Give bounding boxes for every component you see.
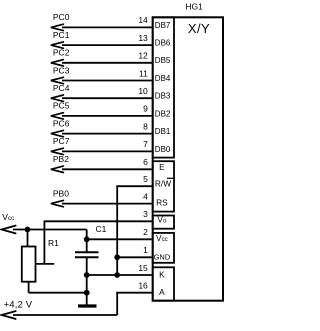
svg-text:K: K bbox=[159, 270, 165, 280]
svg-text:A: A bbox=[159, 287, 165, 297]
svg-text:14: 14 bbox=[138, 15, 148, 25]
svg-text:+4,2 V: +4,2 V bbox=[4, 300, 33, 311]
svg-text:7: 7 bbox=[143, 139, 148, 149]
svg-text:C1: C1 bbox=[96, 224, 107, 234]
svg-text:DB2: DB2 bbox=[155, 109, 171, 118]
svg-text:3: 3 bbox=[143, 209, 148, 219]
svg-text:R/W: R/W bbox=[155, 179, 171, 189]
svg-text:PC0: PC0 bbox=[53, 12, 70, 22]
svg-text:2: 2 bbox=[143, 227, 148, 237]
svg-text:PB2: PB2 bbox=[53, 154, 69, 164]
svg-text:10: 10 bbox=[138, 86, 148, 96]
svg-text:GND: GND bbox=[154, 252, 171, 261]
svg-text:15: 15 bbox=[138, 263, 148, 273]
svg-text:6: 6 bbox=[143, 157, 148, 167]
svg-text:9: 9 bbox=[143, 104, 148, 114]
svg-text:16: 16 bbox=[138, 281, 148, 291]
svg-text:DB1: DB1 bbox=[155, 127, 171, 136]
svg-text:DB7: DB7 bbox=[155, 21, 171, 30]
svg-text:E: E bbox=[159, 162, 165, 172]
svg-text:PC7: PC7 bbox=[53, 136, 70, 146]
svg-text:RS: RS bbox=[156, 198, 168, 208]
svg-text:PC3: PC3 bbox=[53, 65, 70, 75]
svg-text:1: 1 bbox=[143, 245, 148, 255]
svg-text:PC5: PC5 bbox=[53, 101, 70, 111]
svg-text:DB6: DB6 bbox=[155, 39, 171, 48]
svg-text:DB3: DB3 bbox=[155, 92, 171, 101]
svg-text:DB0: DB0 bbox=[155, 145, 171, 154]
svg-text:11: 11 bbox=[139, 68, 148, 78]
svg-text:HG1: HG1 bbox=[185, 2, 203, 12]
svg-text:12: 12 bbox=[138, 51, 148, 61]
svg-text:8: 8 bbox=[143, 121, 148, 131]
svg-text:R1: R1 bbox=[48, 238, 59, 248]
svg-text:PC6: PC6 bbox=[53, 118, 70, 128]
svg-text:PB0: PB0 bbox=[53, 188, 69, 198]
svg-text:PC1: PC1 bbox=[53, 30, 70, 40]
svg-text:DB5: DB5 bbox=[155, 56, 171, 65]
svg-text:DB4: DB4 bbox=[155, 74, 171, 83]
svg-text:4: 4 bbox=[143, 191, 148, 201]
svg-text:X/Y: X/Y bbox=[188, 21, 210, 36]
svg-text:PC2: PC2 bbox=[53, 48, 70, 58]
svg-text:13: 13 bbox=[138, 33, 148, 43]
svg-text:5: 5 bbox=[143, 174, 148, 184]
svg-text:PC4: PC4 bbox=[53, 83, 70, 93]
